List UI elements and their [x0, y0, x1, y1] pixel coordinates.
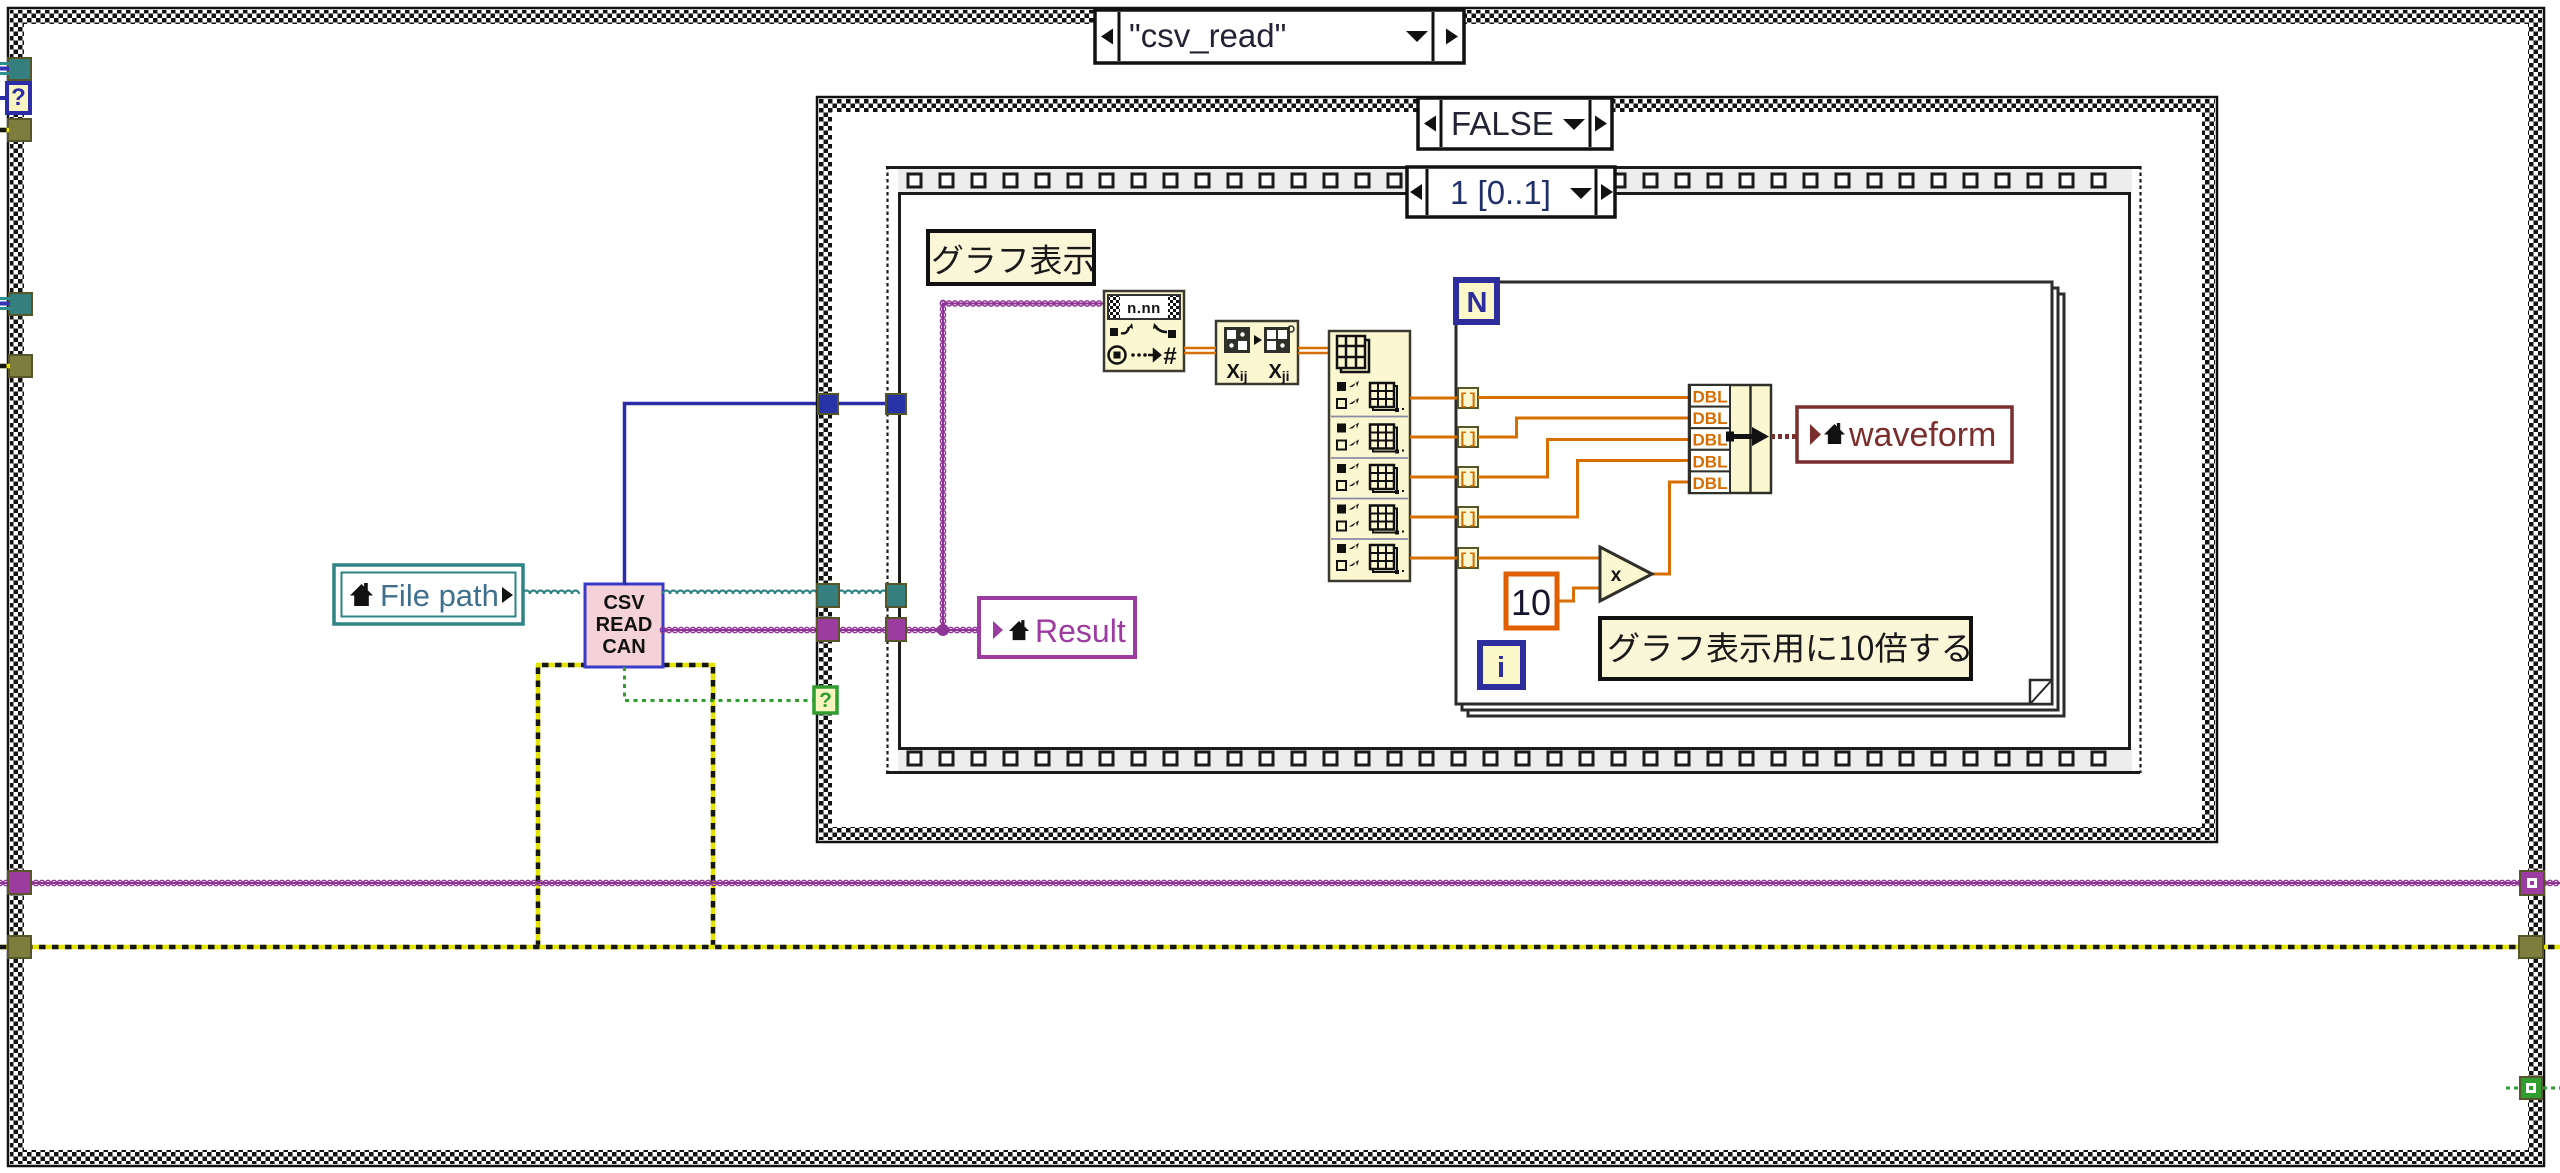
tunnel (purple, sequence): [886, 618, 906, 641]
for loop iteration terminal i: [1480, 643, 1523, 687]
wire (orange, index-array out 1 to loop tunnel): [1410, 397, 1459, 400]
control "File path": [334, 565, 523, 624]
sequence selector label "1 [0..1]": [1407, 167, 1615, 217]
tunnel (teal, outer left mid): [9, 293, 32, 315]
svg-text:waveform: waveform: [1848, 416, 1996, 454]
svg-text:[]: []: [1458, 430, 1477, 448]
svg-text:x: x: [1611, 565, 1622, 586]
wire (path: subVI to sequence tunnel): [663, 591, 901, 595]
wire (orange, tunnel1 to bundle row1): [1478, 396, 1689, 399]
wire (green dotted: subVI to green '?' tunnel): [625, 667, 815, 701]
free label "グラフ表示用に10倍する": [1600, 618, 1971, 679]
tunnel (olive, outer left mid): [9, 355, 32, 377]
svg-text:1 [0..1]: 1 [0..1]: [1450, 174, 1551, 211]
node Transpose-2D-Array: [1216, 321, 1298, 384]
wire stub (error wire into mid olive tunnel): [0, 364, 10, 369]
tunnel (teal, sequence): [886, 584, 906, 607]
auto-index tunnel 2 (for loop left): [1458, 427, 1478, 448]
svg-text:DBL: DBL: [1693, 409, 1728, 428]
svg-text:i: i: [1497, 652, 1505, 684]
wire (orange, index-array out 3 to loop tunnel): [1410, 476, 1459, 479]
wire (orange, tunnel3 to bundle row3): [1478, 440, 1689, 478]
svg-text:[]: []: [1458, 391, 1477, 409]
auto-index tunnel 4 (for loop left): [1458, 507, 1478, 528]
svg-text:?: ?: [11, 84, 26, 111]
svg-text:DBL: DBL: [1693, 474, 1728, 493]
wire (string: branch up to node1): [940, 300, 1104, 630]
svg-text:CAN: CAN: [602, 636, 645, 658]
svg-text:CSV: CSV: [603, 592, 645, 614]
numeric constant 10: [1506, 574, 1557, 628]
error wire (long yellow/black horizontal): [0, 945, 2560, 950]
wire stub (path wire into left teal tunnel): [0, 64, 9, 74]
tunnel (purple, inner case): [817, 618, 839, 641]
inner case structure border (checkered): [817, 97, 2217, 842]
svg-text:[]: []: [1458, 551, 1477, 569]
tunnel (teal, inner case): [817, 584, 839, 607]
tunnel (teal, outer left top): [8, 58, 31, 80]
node Spreadsheet-String-To-Array: [1104, 291, 1184, 371]
tunnel (green '?', inner case): [814, 687, 837, 713]
svg-text:DBL: DBL: [1693, 452, 1728, 471]
wire stub (blue, into '?'): [0, 96, 7, 100]
tunnel (blue, inner case): [818, 394, 838, 414]
free label "グラフ表示": [928, 231, 1094, 284]
tunnel (olive, outer right): [2519, 936, 2543, 958]
wire stub (green dotted, right bottom): [2506, 1087, 2560, 1090]
tunnel (olive, outer left top): [8, 119, 31, 141]
svg-text:READ: READ: [596, 614, 653, 636]
svg-text:DBL: DBL: [1693, 431, 1728, 450]
svg-text:File path: File path: [380, 578, 499, 613]
multiply function: [1600, 547, 1652, 601]
subVI CSV READ CAN: [585, 584, 663, 667]
wire (orange, tunnel5 to multiply): [1478, 557, 1600, 560]
sequence structure right edge: [2130, 166, 2141, 773]
wire (orange, tunnel4 to bundle row4): [1478, 461, 1689, 518]
wire (orange, index-array out 2 to loop tunnel): [1410, 436, 1459, 439]
wire (orange, tunnel2 to bundle row2): [1478, 418, 1689, 437]
sequence structure bottom film strip: [886, 747, 2140, 773]
wire (2D array orange, node2 to node3): [1298, 348, 1329, 353]
error wire riser right: [663, 665, 713, 947]
svg-text:?: ?: [819, 689, 832, 712]
wire (blue I32: subVI top to case tunnels): [625, 404, 907, 586]
wire (orange, constant 10 to multiply): [1559, 588, 1600, 601]
wire (cluster dark-red dashed, bundle to waveform): [1771, 434, 1797, 439]
tunnel (olive, outer left bottom): [8, 936, 31, 958]
tunnel (purple w/ dot, outer right): [2520, 871, 2544, 895]
svg-text:FALSE: FALSE: [1451, 105, 1554, 142]
svg-text:"csv_read": "csv_read": [1129, 17, 1286, 54]
sequence structure top film strip: [886, 166, 2140, 195]
auto-index tunnel 1 (for loop left): [1458, 388, 1478, 409]
tunnel (purple, outer left bottom): [8, 871, 31, 894]
svg-text:n.nn: n.nn: [1127, 300, 1161, 317]
for loop count terminal N: [1456, 280, 1497, 322]
for loop (stacked pages): [1456, 282, 2064, 716]
wire stub (error wire into left olive tunnel): [0, 128, 9, 133]
case selector label "FALSE": [1418, 98, 1612, 149]
svg-text:Result: Result: [1035, 613, 1126, 649]
bundle node (5x DBL): [1689, 385, 1771, 493]
auto-index tunnel 5 (for loop left): [1458, 548, 1478, 569]
svg-text:DBL: DBL: [1693, 388, 1728, 407]
wire (string: subVI right to Result): [660, 627, 979, 632]
svg-text:[]: []: [1458, 510, 1477, 528]
wire (path: File path to subVI): [523, 591, 579, 595]
error wire riser left: [538, 665, 585, 947]
wire junction (string): [937, 624, 949, 636]
sequence structure left edge: [888, 166, 900, 773]
auto-index tunnel 3 (for loop left): [1458, 467, 1478, 488]
indicator "waveform": [1797, 407, 2012, 462]
tunnel (blue, sequence): [886, 394, 906, 414]
svg-text:10: 10: [1511, 582, 1551, 623]
wire (orange, index-array out 5 to loop tunnel): [1410, 557, 1459, 560]
wire stub (path wire into mid teal tunnel): [0, 299, 10, 309]
tunnel (green w/ dot, outer right bottom): [2520, 1077, 2542, 1099]
wire (orange, index-array out 4 to loop tunnel): [1410, 516, 1459, 519]
string wire (long purple horizontal): [0, 880, 2560, 885]
svg-text:[]: []: [1458, 470, 1477, 488]
svg-text:#: #: [1163, 343, 1176, 370]
svg-text:N: N: [1467, 287, 1488, 319]
case selector label "csv_read": [1095, 10, 1464, 63]
node Index-Array (expanded): [1329, 331, 1410, 581]
indicator "Result": [979, 598, 1135, 657]
wire (2D array orange, node1 to node2): [1184, 348, 1216, 353]
case selector terminal '?' (outer left): [7, 83, 30, 113]
wire (orange, multiply out to bundle row5): [1652, 482, 1689, 574]
